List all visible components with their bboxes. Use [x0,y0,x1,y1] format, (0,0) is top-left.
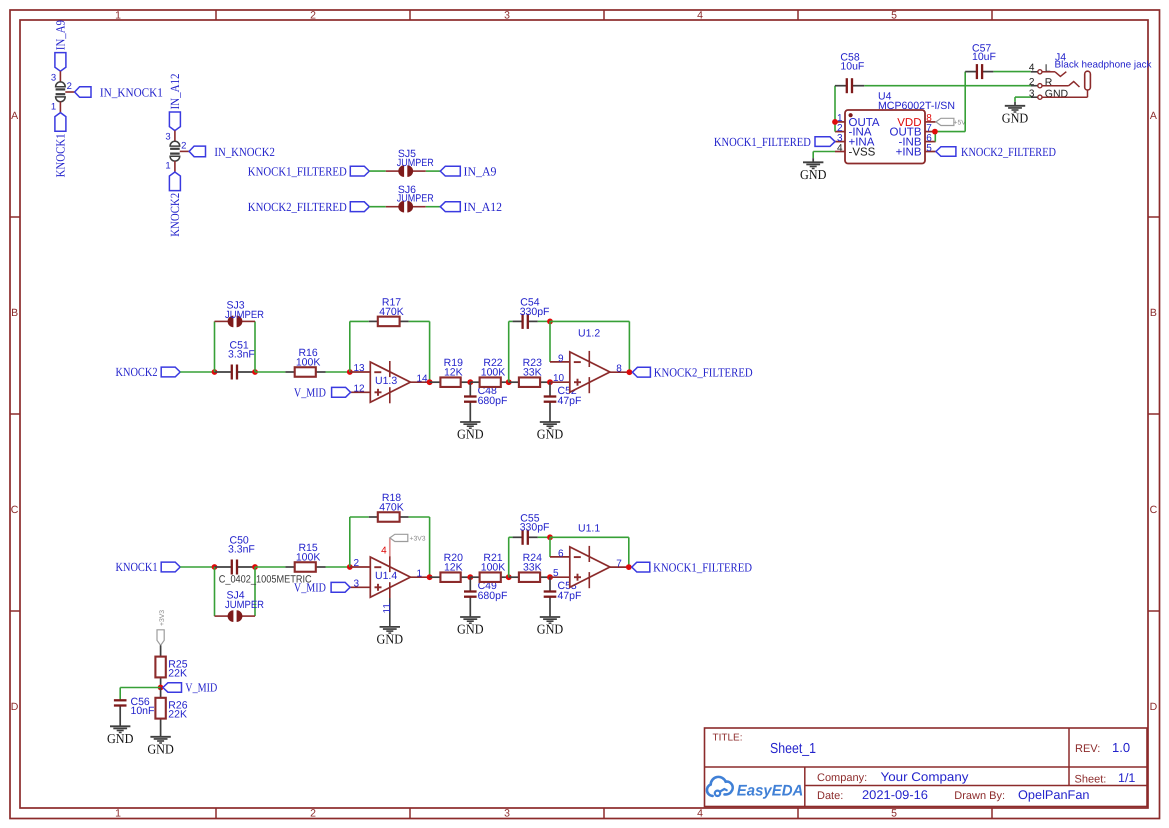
svg-text:JUMPER: JUMPER [397,192,434,204]
KNOCK2 filter chain [116,296,753,441]
net flag IN_A9 [54,20,68,71]
net flag IN_KNOCK1 [75,86,163,100]
wire -INB to OUTB [934,132,936,142]
junction [506,574,512,580]
svg-text:IN_KNOCK1: IN_KNOCK1 [100,86,163,100]
sheet row [1075,771,1136,786]
op-amp U1.2 [550,328,629,394]
svg-text:Your Company: Your Company [881,770,970,784]
svg-text:4: 4 [697,808,703,820]
svg-text:GND: GND [1045,88,1069,100]
svg-text:C: C [11,504,19,516]
resistor R20 (12K) [430,552,471,582]
junction [427,379,433,385]
label C_0402_1005METRIC [219,573,312,585]
net flag KNOCK2_FILTERED [248,200,369,214]
svg-text:A: A [1150,110,1157,122]
jumper adapter 1 (IN_A9 / IN_KNOCK1 / KNOCK1) [51,20,163,177]
svg-text:6: 6 [558,548,564,559]
svg-text:3: 3 [354,578,360,589]
solder jumper SJ4 [215,590,265,622]
svg-text:Company:: Company: [817,772,867,784]
wire [538,536,550,538]
title text [713,732,817,757]
wire [369,206,386,208]
junction [547,534,553,540]
svg-text:+3V3: +3V3 [410,535,426,542]
junction [467,379,473,385]
ground [457,617,484,637]
date row [817,788,1090,802]
svg-text:GND: GND [457,427,484,442]
svg-text:3: 3 [51,72,56,83]
svg-text:GND: GND [537,427,564,442]
svg-text:13: 13 [354,363,366,374]
jumper adapter 2 (IN_A12 / IN_KNOCK2 / KNOCK2) [165,74,274,237]
svg-text:C: C [1150,504,1158,516]
svg-text:U1.2: U1.2 [578,328,600,340]
junction [212,564,218,570]
svg-text:4: 4 [381,546,387,557]
svg-text:IN_A9: IN_A9 [464,164,497,178]
svg-text:IN_A12: IN_A12 [464,200,503,214]
svg-text:+3V3: +3V3 [159,610,166,626]
junction [626,564,632,570]
ground under R26 [147,737,174,757]
svg-text:12K: 12K [444,562,463,574]
junction [427,574,433,580]
svg-text:V_MID: V_MID [294,580,326,594]
power flag +3V3 at pin 4 [381,534,426,556]
rev text [1075,740,1130,755]
net flag KNOCK1_FILTERED [632,560,752,574]
jumper SJ5 row [248,148,497,178]
svg-text:KNOCK2_FILTERED: KNOCK2_FILTERED [961,145,1056,159]
svg-text:+5V: +5V [954,119,967,126]
svg-text:3: 3 [165,132,170,143]
junction [347,369,353,375]
svg-text:330pF: 330pF [520,306,550,318]
ground at pin 4 [800,158,827,182]
svg-text:KNOCK2_FILTERED: KNOCK2_FILTERED [654,365,753,379]
net flag V_MID [294,385,351,399]
svg-text:KNOCK1: KNOCK1 [116,560,158,574]
pin 2 lead [180,150,189,152]
wire feedback left [350,321,369,372]
svg-text:Date:: Date: [817,790,843,802]
wire OUTB to C57 [936,72,966,132]
wire [174,131,176,142]
net flag KNOCK2 [116,365,181,379]
svg-text:D: D [1150,701,1158,713]
resistor R21 (100K) [470,552,508,582]
pin 1 lead [59,102,61,113]
svg-text:OpelPanFan: OpelPanFan [1018,788,1090,802]
wire [255,371,285,373]
svg-text:GND: GND [147,742,174,757]
svg-text:MCP6002T-I/SN: MCP6002T-I/SN [878,100,955,112]
wire [509,537,513,577]
svg-text:680pF: 680pF [478,590,508,602]
svg-text:3: 3 [1029,89,1035,100]
net flag KNOCK2_FILTERED [632,365,752,379]
ground [537,617,564,637]
svg-text:33K: 33K [523,562,542,574]
capacitor C56 (10nF) [114,696,155,726]
capacitor C51 (3.3nF) [215,340,256,380]
svg-text:1.0: 1.0 [1112,740,1130,755]
net flag KNOCK1_FILTERED at pin 3 [714,135,835,149]
wire [215,321,256,372]
wire [426,206,441,208]
svg-text:1: 1 [115,9,121,21]
wire [369,170,386,172]
svg-text:12K: 12K [444,367,463,379]
svg-text:2021-09-16: 2021-09-16 [862,788,928,802]
resistor R19 (12K) [430,357,471,387]
capacitor C57 (10uF) [965,42,996,79]
capacitor C55 (330pF) [513,512,550,544]
jumper SJ6 row [248,184,502,214]
svg-text:EasyEDA: EasyEDA [737,783,804,800]
svg-text:2: 2 [1029,77,1035,88]
wire [426,170,441,172]
svg-text:V_MID: V_MID [185,681,217,695]
svg-text:10uF: 10uF [972,51,996,63]
capacitor C50 (3.3nF) [215,535,256,575]
svg-text:470K: 470K [379,501,404,513]
svg-text:1: 1 [115,808,121,820]
svg-text:GND: GND [377,632,404,647]
op-amp U1.1 [550,523,629,589]
svg-text:TITLE:: TITLE: [713,732,743,743]
svg-text:KNOCK1: KNOCK1 [54,133,68,177]
svg-text:10uF: 10uF [840,61,864,73]
svg-text:+INB: +INB [896,147,922,159]
svg-text:12: 12 [354,383,366,394]
svg-text:3: 3 [504,808,510,820]
V_MID divider block [107,610,217,757]
net flag IN_KNOCK2 [189,145,275,159]
solder jumper SJ3 [215,300,265,328]
svg-text:JUMPER: JUMPER [225,599,264,611]
svg-text:2: 2 [354,558,360,569]
svg-text:Sheet_1: Sheet_1 [770,741,816,757]
svg-text:22K: 22K [168,709,187,721]
svg-text:D: D [11,701,19,713]
svg-text:11: 11 [382,603,393,614]
junction [347,564,353,570]
svg-text:IN_A12: IN_A12 [168,74,182,110]
svg-text:14: 14 [417,373,429,384]
op-amp U1.4 [350,556,430,598]
capacitor C49 (680pF) [464,577,507,617]
wire C58 to J4 pin R [864,85,1031,87]
capacitor C53 (47pF) [544,577,582,617]
svg-text:GND: GND [1002,111,1029,126]
junction [832,119,838,125]
wire [180,371,214,373]
wire J4 GND [1015,97,1031,102]
svg-text:KNOCK1_FILTERED: KNOCK1_FILTERED [248,164,347,178]
wire feedback right [409,517,430,577]
title block frame [705,728,1148,807]
svg-text:2: 2 [67,81,72,92]
wire [255,566,285,568]
title block [705,728,1148,807]
svg-text:47pF: 47pF [558,395,582,407]
wire -VSS to ground [813,152,835,159]
svg-text:7: 7 [616,559,622,570]
wire feedback left [350,517,369,567]
svg-text:8: 8 [616,364,622,375]
svg-text:2: 2 [181,140,186,151]
svg-text:3: 3 [504,9,510,21]
resistor R25 (22K) [155,645,187,687]
svg-text:4: 4 [697,9,703,21]
svg-text:1: 1 [51,101,56,112]
svg-text:Black headphone jack: Black headphone jack [1055,59,1152,70]
svg-text:U1.4: U1.4 [375,570,397,582]
svg-text:9: 9 [558,353,564,364]
svg-text:1/1: 1/1 [1118,771,1135,785]
capacitor C54 (330pF) [513,297,550,329]
svg-text:33K: 33K [523,367,542,379]
resistor R22 (100K) [470,357,508,387]
capacitor C48 (680pF) [464,382,507,422]
junction [212,369,218,375]
company row [817,770,969,784]
svg-text:100K: 100K [481,367,506,379]
EasyEDA logo [707,777,803,800]
svg-text:B: B [11,307,18,319]
svg-text:KNOCK2_FILTERED: KNOCK2_FILTERED [248,200,347,214]
net flag KNOCK2_FILTERED at pin 5 [936,145,1056,159]
svg-text:Drawn By:: Drawn By: [954,790,1005,802]
svg-text:5: 5 [553,568,559,579]
svg-text:10: 10 [553,373,565,384]
pin 1 lead [174,161,176,172]
net flag V_MID [294,580,350,594]
svg-text:Sheet:: Sheet: [1075,773,1107,785]
capacitor C58 (10uF) [835,52,864,93]
ground [537,422,564,442]
resistor R15 (100K) [285,542,325,572]
svg-text:4: 4 [1029,62,1035,73]
solder jumper SJ6 [386,184,434,213]
svg-text:KNOCK2: KNOCK2 [168,193,182,237]
svg-text:KNOCK2: KNOCK2 [116,365,158,379]
resistor R23 (33K) [509,357,550,387]
wire [538,320,550,322]
svg-text:-VSS: -VSS [849,147,876,159]
svg-text:5: 5 [891,9,897,21]
wire [215,567,256,616]
svg-text:GND: GND [537,622,564,637]
wire [549,537,551,557]
resistor R24 (33K) [509,552,550,582]
solder jumper 3-pad [51,72,72,112]
svg-text:REV:: REV: [1075,743,1100,755]
net flag KNOCK1_FILTERED [248,164,369,178]
svg-text:JUMPER: JUMPER [397,157,434,169]
junction [547,379,553,385]
wire to C56 [120,688,160,700]
op-amp U1.3 [350,361,430,403]
junction [467,574,473,580]
junction [252,564,258,570]
resistor R26 (22K) [155,688,187,737]
connector J4 black headphone jack [1029,51,1152,99]
svg-text:V_MID: V_MID [294,385,326,399]
svg-text:R: R [1045,76,1053,88]
svg-text:5: 5 [891,808,897,820]
svg-text:100K: 100K [296,551,321,563]
power flag +3V3 at divider [157,610,166,646]
wire [549,321,551,362]
pin 2 lead [65,91,74,93]
svg-text:1: 1 [417,568,423,579]
ground at pin 11 [377,598,404,647]
ground under C56 [107,726,134,746]
capacitor C52 (47pF) [544,382,582,422]
svg-text:IN_KNOCK2: IN_KNOCK2 [214,145,275,159]
svg-text:IN_A9: IN_A9 [54,20,68,50]
junction [627,369,633,375]
net flag IN_A12 [168,74,182,131]
net flag KNOCK1 [54,113,68,178]
wire [326,371,350,373]
svg-text:2: 2 [310,808,316,820]
net flag KNOCK1 [116,560,181,574]
svg-text:47pF: 47pF [558,590,582,602]
resistor R18 (470K) [369,492,409,522]
junction [932,129,938,135]
junction [547,574,553,580]
svg-text:100K: 100K [481,562,506,574]
svg-text:GND: GND [800,167,827,182]
svg-text:2: 2 [310,9,316,21]
svg-text:10nF: 10nF [131,705,155,717]
solder jumper SJ5 [386,148,434,177]
svg-text:B: B [1150,307,1157,319]
wire [59,71,61,82]
wire [180,566,214,568]
svg-text:470K: 470K [379,306,404,318]
net flag IN_A9 [440,164,496,178]
svg-text:22K: 22K [168,668,187,680]
svg-text:JUMPER: JUMPER [225,309,264,321]
op-amp U4 MCP6002T-I/SN [835,91,955,164]
svg-text:KNOCK1_FILTERED: KNOCK1_FILTERED [653,560,752,574]
net flag V_MID [163,681,217,695]
wire OUTA to C58 [834,86,836,132]
net flag IN_A12 [440,200,502,214]
junction [252,369,258,375]
U4 circuit block [714,42,1056,182]
power flag +5V at pin 8 [936,118,966,126]
svg-text:680pF: 680pF [478,395,508,407]
svg-text:GND: GND [457,622,484,637]
svg-text:3.3nF: 3.3nF [228,543,255,555]
ground at J4 [1002,102,1029,126]
junction [158,685,164,691]
resistor R16 (100K) [285,347,325,377]
net flag KNOCK2 [168,172,182,237]
svg-text:KNOCK1_FILTERED: KNOCK1_FILTERED [714,135,811,149]
svg-text:4: 4 [837,143,843,154]
svg-text:100K: 100K [296,356,321,368]
wire C57 to J4 pin L [993,71,1030,73]
wire [550,537,629,567]
junction [547,319,553,325]
junction [506,379,512,385]
wire [509,321,513,382]
svg-text:GND: GND [107,731,134,746]
solder jumper 3-pad [165,132,186,172]
svg-text:5: 5 [926,143,932,154]
wire [326,566,350,568]
svg-text:1: 1 [165,161,170,172]
KNOCK1 filter chain [116,492,753,647]
resistor R17 (470K) [369,296,409,326]
svg-text:3.3nF: 3.3nF [228,348,255,360]
svg-text:U1.3: U1.3 [375,375,397,387]
wire [550,321,629,372]
wire feedback right [409,321,430,382]
svg-text:U1.1: U1.1 [578,523,600,535]
svg-text:A: A [11,110,18,122]
svg-text:330pF: 330pF [520,522,550,534]
J4 block [1002,51,1152,125]
ground [457,422,484,442]
